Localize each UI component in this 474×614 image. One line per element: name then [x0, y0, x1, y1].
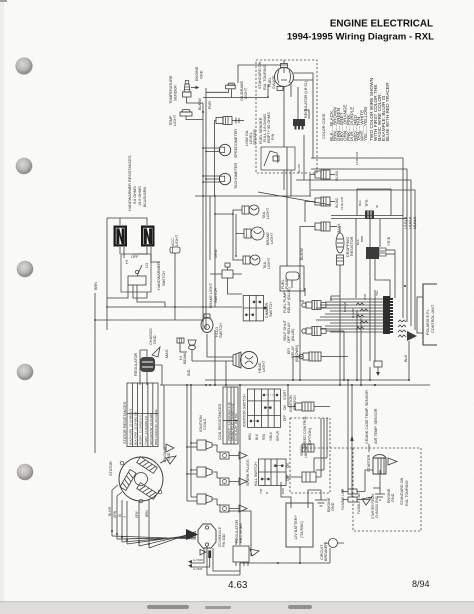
ignition coil 3: [197, 494, 217, 505]
wire cross runs: [95, 293, 242, 453]
svg-text:CONTROL UNIT: CONTROL UNIT: [431, 304, 435, 333]
svg-text:INJ#3: INJ#3: [335, 171, 339, 181]
svg-text:GND: GND: [331, 502, 335, 511]
handwarmer switch: [121, 254, 166, 292]
node light junctions: [214, 213, 237, 257]
svg-text:B/W: B/W: [281, 488, 285, 494]
wire relay rails: [300, 288, 348, 380]
svg-text:TPS: TPS: [365, 199, 369, 207]
chassis gnd (regulator): [149, 328, 160, 357]
injector INJ#1: [315, 222, 341, 233]
head light: [233, 352, 266, 374]
node handlebar junctions: [94, 306, 204, 321]
standard on rxl touring label (bottom): [400, 477, 409, 506]
svg-text:BREAKER: BREAKER: [324, 543, 328, 561]
oil/brake light: [206, 80, 248, 101]
fuel shut relay: [283, 319, 326, 343]
mag terminal block: [165, 338, 187, 358]
node sensor junctions: [369, 379, 376, 386]
chassis gnd (cdi): [200, 550, 211, 559]
node run junctions: [202, 195, 216, 197]
svg-text:P/N 4010: P/N 4010: [222, 533, 226, 547]
svg-text:HANDWARMER RESISTANCES: HANDWARMER RESISTANCES: [128, 155, 132, 211]
fusible link 2: [348, 492, 361, 514]
engine gnd symbol (battery): [315, 490, 335, 512]
svg-text:Y/B: Y/B: [259, 489, 263, 494]
regulator (LR 51) label: [304, 80, 308, 118]
wire injector feed 4: [311, 190, 415, 330]
svg-text:IGNITION SWITCH: IGNITION SWITCH: [243, 394, 247, 427]
wire comb feeds: [316, 299, 383, 332]
svg-text:12V BATTERY: 12V BATTERY: [294, 515, 298, 540]
CDI box: [186, 524, 226, 548]
efi relay / self test connector: [287, 344, 348, 380]
wire fusible links: [342, 489, 369, 500]
acc light: [170, 234, 180, 253]
node stator lead junctions: [111, 530, 150, 545]
speedometer: [203, 129, 238, 158]
temp light: [169, 110, 192, 127]
svg-text:CRANK CASE TEMP. SENSOR: CRANK CASE TEMP. SENSOR: [365, 390, 369, 444]
svg-text:COIL RESISTANCES: COIL RESISTANCES: [218, 403, 222, 440]
svg-text:YEL: YEL: [375, 290, 379, 296]
wire gauge bottom run: [195, 195, 311, 197]
wire lights bus: [210, 196, 244, 307]
svg-text:BLK/R: BLK/R: [108, 506, 112, 516]
svg-text:4.63: 4.63: [228, 580, 248, 591]
svg-text:(BLUE): (BLUE): [291, 328, 295, 341]
node temp junction: [202, 111, 204, 113]
starter motor: [367, 454, 397, 474]
wire battery leads: [281, 482, 321, 563]
wire color-change zigzags: [356, 303, 368, 329]
svg-text:CHASSIS GND: CHASSIS GND: [375, 495, 379, 518]
svg-text:Y.E.B: Y.E.B: [387, 236, 391, 246]
spark plug 1: [217, 452, 239, 459]
svg-text:W-GRY .11 OHMS 0.5: W-GRY .11 OHMS 0.5: [138, 415, 142, 445]
svg-text:BLK: BLK: [404, 354, 408, 362]
engine gnd (plug 1): [239, 452, 247, 459]
svg-text:8/94: 8/94: [412, 579, 430, 589]
bus wire vertical 1: [214, 121, 216, 197]
wire sensor drops: [370, 250, 395, 298]
svg-text:SPARK PLUGS: SPARK PLUGS: [246, 459, 250, 486]
svg-text:BRN-GROUND .23 OHMS: BRN-GROUND .23 OHMS: [154, 409, 158, 445]
ignition switch wire labels: [248, 430, 280, 441]
wire head light feeds: [214, 330, 216, 385]
engine gnd (starter): [375, 488, 395, 503]
svg-text:MAG: MAG: [165, 349, 169, 358]
brake light switch: [209, 263, 233, 308]
regulator rectifier: [233, 519, 249, 566]
low oil level sender: [216, 117, 257, 147]
svg-text:STANDARD ON: STANDARD ON: [258, 61, 262, 89]
svg-text:ON: ON: [283, 405, 287, 410]
wire color labels (harness): [297, 151, 379, 318]
wire main horizontal lower: [160, 384, 430, 386]
fuel sender resistance label: [259, 112, 275, 144]
fuel sender float: [261, 147, 295, 170]
kill switch grid: [254, 459, 290, 494]
svg-text:IND.: IND.: [187, 368, 191, 376]
svg-text:RXL TOURING: RXL TOURING: [405, 480, 409, 506]
svg-text:LIGHT: LIGHT: [266, 207, 270, 219]
engine gnd (plug 2): [239, 478, 247, 485]
stator wire labels: [108, 506, 149, 518]
kill switch block: [286, 418, 327, 482]
svg-text:HI: HI: [125, 260, 129, 264]
punch hole 2: [16, 158, 33, 175]
wire main horizontal upper: [205, 379, 409, 381]
svg-text:LO: LO: [145, 263, 149, 268]
wire fuel gauge feeds: [268, 60, 313, 158]
node main junctions: [186, 379, 410, 386]
svg-text:GRY: GRY: [135, 510, 139, 518]
svg-text:GRN: GRN: [113, 510, 117, 518]
fusible link 1: [341, 488, 357, 510]
svg-text:(BROWN): (BROWN): [295, 344, 299, 362]
svg-text:SPEED CONTROL: SPEED CONTROL: [303, 416, 307, 449]
svg-text:TACHOMETER: TACHOMETER: [234, 162, 238, 189]
fuel gauge: [268, 64, 294, 91]
EFI harness comb connector: [383, 296, 393, 334]
svg-text:STATOR: STATOR: [109, 461, 113, 476]
wire temp light to bus: [186, 116, 203, 120]
ignition coil 1: [197, 440, 217, 452]
svg-text:(OPTION): (OPTION): [308, 427, 312, 445]
wire bottom runs: [240, 548, 330, 575]
polaris EFI control unit box: [417, 284, 437, 345]
handwarmer element left: [114, 226, 128, 247]
svg-text:GND: GND: [199, 70, 203, 79]
temperature sender: [169, 75, 191, 104]
svg-text:Y-GRY .21 OHMS 0.8: Y-GRY .21 OHMS 0.8: [144, 416, 148, 445]
bus wire vertical 3: [205, 88, 207, 330]
starter relay gnd: [362, 492, 379, 519]
svg-text:BRN: BRN: [248, 433, 252, 440]
wire main verticals center: [348, 310, 361, 497]
page corner mark: [0, 0, 7, 2]
svg-text:STARTER: STARTER: [367, 454, 371, 472]
svg-text:GND: GND: [391, 493, 395, 502]
svg-text:ENGINE ELECTRICAL: ENGINE ELECTRICAL: [330, 19, 433, 30]
ignition switch: [243, 389, 298, 427]
svg-text:YEL.....YELLOW: YEL.....YELLOW: [363, 106, 368, 141]
hi-lo switch: [201, 314, 223, 338]
wire efi to main: [408, 341, 410, 380]
wire labels L5: [404, 216, 417, 229]
svg-text:POLARIS E.F.I.: POLARIS E.F.I.: [426, 309, 430, 335]
svg-text:SWITCH: SWITCH: [269, 302, 273, 317]
svg-text:SWITCH: SWITCH: [219, 323, 223, 338]
svg-text:BRAKE LIGHT: BRAKE LIGHT: [209, 282, 213, 308]
node coil feed junctions: [186, 442, 192, 475]
svg-text:REGULATOR: REGULATOR: [134, 352, 138, 376]
svg-text:BLUE WITH RED TRACER: BLUE WITH RED TRACER: [385, 82, 391, 141]
svg-text:L5,BLK: L5,BLK: [409, 216, 413, 229]
svg-text:BLK/W: BLK/W: [351, 308, 355, 318]
wire arrow up: [350, 435, 353, 441]
speed control connector: [288, 385, 330, 493]
svg-text:SENDER: SENDER: [174, 85, 178, 101]
svg-text:GRY-GRY/W .23 OHMS: GRY-GRY/W .23 OHMS: [149, 413, 153, 445]
svg-text:KILL SWITCH: KILL SWITCH: [254, 462, 258, 486]
svg-text:A-7400: A-7400: [193, 558, 203, 562]
wire handwarmer tails: [124, 247, 160, 262]
wire injector drops: [300, 175, 315, 381]
bottom scan band: [0, 602, 474, 614]
svg-text:L5,BLU/R: L5,BLU/R: [340, 196, 344, 210]
svg-text:19.6 OHMS: 19.6 OHMS: [138, 186, 142, 206]
dashed option stub: [302, 447, 353, 449]
svg-text:PUMP: PUMP: [285, 278, 289, 289]
chassis gnd (rectifier): [250, 549, 259, 556]
stator: [109, 457, 163, 503]
wire sender to bus: [215, 120, 217, 122]
svg-text:PLUG GAP .028 INC: PLUG GAP .028 INC: [234, 412, 238, 441]
svg-text:GAUGE: GAUGE: [272, 75, 276, 89]
dropping resistor: [336, 233, 354, 257]
wire oil light: [203, 97, 268, 99]
svg-text:R/W: R/W: [262, 434, 266, 440]
svg-text:OFF: OFF: [286, 475, 290, 481]
node efi wire dot: [404, 285, 406, 287]
node bus junctions: [202, 147, 207, 183]
svg-text:HANDWARMER: HANDWARMER: [157, 262, 161, 290]
wire acc light drop: [165, 253, 175, 307]
svg-text:COLOR CODE: COLOR CODE: [322, 113, 326, 139]
punch hole 5: [17, 464, 34, 481]
dashed option box (electric start): [353, 448, 421, 531]
wire temp sender to bus: [187, 97, 204, 103]
svg-text:ON: ON: [286, 463, 290, 468]
wire switch drops: [107, 285, 165, 302]
chassis gnd (stator): [160, 456, 176, 464]
tachometer: [203, 162, 238, 189]
svg-text:GND: GND: [153, 335, 157, 344]
wire cdi bottom leads: [188, 546, 240, 575]
injector INJ#3: [315, 170, 339, 181]
svg-text:LIGHT: LIGHT: [262, 360, 266, 372]
svg-text:LIGHT: LIGHT: [270, 232, 274, 244]
svg-text:BLK/W: BLK/W: [198, 98, 202, 110]
hi beam indicator: [179, 340, 196, 376]
punch hole 4: [17, 364, 34, 381]
svg-text:A-7401: A-7401: [193, 567, 203, 571]
wire oil lamp top: [238, 65, 291, 97]
voltage regulator connector: [293, 87, 309, 130]
svg-text:P/N: P/N: [271, 133, 275, 140]
svg-text:R/PUR: R/PUR: [276, 430, 280, 441]
svg-text:RXL TOURING: RXL TOURING: [263, 64, 267, 90]
fuel pump assembly: [280, 266, 304, 291]
wire engine gnd coil: [164, 385, 166, 448]
wire hi beam: [192, 334, 233, 385]
tail light lower: [243, 255, 271, 269]
wire starter leads: [365, 444, 380, 492]
dimmer switch: [243, 295, 273, 321]
svg-text:L5,BLU/R: L5,BLU/R: [355, 151, 359, 165]
svg-text:BLK-GRN .23 OHMS 0.8: BLK-GRN .23 OHMS 0.8: [134, 411, 138, 445]
dashed option box (fuel sender / std on RXL touring): [256, 60, 317, 173]
coil resistances table: [218, 387, 238, 444]
handwarmer resistances label: [128, 155, 147, 211]
svg-text:BLK: BLK: [255, 433, 259, 440]
svg-text:B: B: [265, 492, 269, 494]
dropping resistor plug: [337, 226, 344, 385]
svg-text:REGULATOR (LR 51): REGULATOR (LR 51): [304, 80, 308, 118]
svg-text:BLK: BLK: [358, 200, 362, 206]
TPS sensor: [357, 189, 391, 219]
sensor multi connector: [366, 236, 395, 259]
air temp sensor plug: [374, 361, 382, 376]
wire regulator leads: [140, 350, 162, 385]
wire fuel pump feeds down: [284, 135, 304, 266]
injector INJ#2: [315, 197, 339, 208]
svg-text:LIGHT: LIGHT: [267, 257, 271, 269]
svg-text:(TOURING): (TOURING): [300, 521, 304, 538]
svg-text:OFF: OFF: [131, 255, 139, 259]
svg-text:BEAM: BEAM: [183, 353, 187, 364]
wire injector feed 3: [296, 180, 411, 326]
svg-text:9.8 OHMS: 9.8 OHMS: [133, 186, 137, 204]
punch hole 3: [17, 261, 34, 278]
bus wire vertical 2: [202, 103, 204, 330]
wire handwarmer loop: [107, 218, 147, 330]
color code block: [322, 77, 391, 141]
spark plug 2: [217, 478, 239, 485]
svg-text:COILS: COILS: [203, 418, 207, 430]
speed limiter: [300, 444, 314, 458]
svg-text:LIMITER: LIMITER: [304, 445, 308, 458]
wire stator leads: [112, 485, 196, 548]
punch hole 1: [15, 57, 32, 74]
node fuel gauge: [267, 96, 269, 98]
handwarmer element right: [141, 226, 155, 247]
svg-text:SWITCH: SWITCH: [214, 288, 218, 303]
svg-text:W: W: [118, 514, 122, 517]
wire coil feeds: [187, 385, 197, 501]
svg-text:AIR TEMP. SENSOR: AIR TEMP. SENSOR: [374, 408, 378, 444]
regulator: [134, 352, 155, 376]
standard on rxl touring label: [258, 61, 267, 90]
svg-text:LIGHT: LIGHT: [175, 234, 179, 246]
svg-text:STATOR RESISTANCES: STATOR RESISTANCES: [123, 401, 127, 444]
engine gnd arrow (temp sender): [191, 66, 203, 89]
svg-text:START: START: [283, 390, 287, 400]
stator resistances table: [123, 383, 158, 447]
svg-text:LIGHT: LIGHT: [173, 114, 177, 126]
svg-text:SWITCH: SWITCH: [162, 271, 166, 286]
svg-text:BLU/B-BRN: BLU/B-BRN: [143, 186, 147, 207]
svg-text:BLK/R-GRN .23 OHMS 2.8: BLK/R-GRN .23 OHMS 2.8: [129, 408, 133, 445]
svg-text:Y/BLK: Y/BLK: [269, 431, 273, 441]
svg-text:BRN: BRN: [360, 236, 364, 242]
svg-text:INJ#2: INJ#2: [335, 198, 339, 208]
ignition coil 2: [197, 467, 217, 478]
12V battery: [286, 503, 313, 547]
svg-text:STANDARD ON: STANDARD ON: [400, 477, 404, 505]
circuit breaker: [320, 539, 344, 562]
wire diagonal run: [258, 192, 331, 205]
svg-text:BLK/W: BLK/W: [300, 248, 304, 260]
wire rectifier feeds: [228, 385, 251, 556]
tail light upper: [242, 205, 270, 219]
svg-text:BRN: BRN: [94, 282, 98, 290]
wire brake switch: [210, 274, 242, 294]
svg-text:W: W: [375, 205, 379, 208]
svg-text:FUSIBLE LINK: FUSIBLE LINK: [357, 492, 361, 514]
svg-text:TEMPERATURE: TEMPERATURE: [169, 75, 173, 104]
svg-text:RESISTOR: RESISTOR: [350, 236, 354, 256]
page left edge shading: [0, 0, 4, 614]
brake light: [244, 227, 274, 245]
spark plug 3: [217, 505, 239, 512]
svg-text:ENGINE: ENGINE: [195, 66, 199, 81]
wire TPS runs: [331, 216, 407, 299]
wire injector feed 2: [311, 169, 407, 322]
svg-text:BRN: BRN: [145, 510, 149, 517]
engine gnd (coils): [163, 444, 174, 462]
ignition coils label: [199, 415, 207, 432]
svg-text:OFF: OFF: [283, 415, 287, 421]
svg-text:L5,BLK: L5,BLK: [413, 216, 417, 229]
efi ground zigzag arrow: [398, 320, 417, 341]
engine gnd (plug 3): [239, 505, 247, 512]
svg-text:BLU/R: BLU/R: [297, 163, 301, 173]
wire injector feed 1: [311, 158, 403, 318]
svg-text:BRN/W: BRN/W: [343, 302, 347, 312]
wire sensor verticals: [370, 290, 375, 380]
fuel pump relay: [283, 287, 326, 313]
svg-text:RELAY (BLUE): RELAY (BLUE): [287, 287, 291, 313]
svg-text:PUR: PUR: [208, 101, 212, 109]
svg-text:SPEEDOMETER: SPEEDOMETER: [234, 129, 238, 158]
svg-text:1994-1995 Wiring Diagram - RXL: 1994-1995 Wiring Diagram - RXL: [287, 32, 434, 43]
